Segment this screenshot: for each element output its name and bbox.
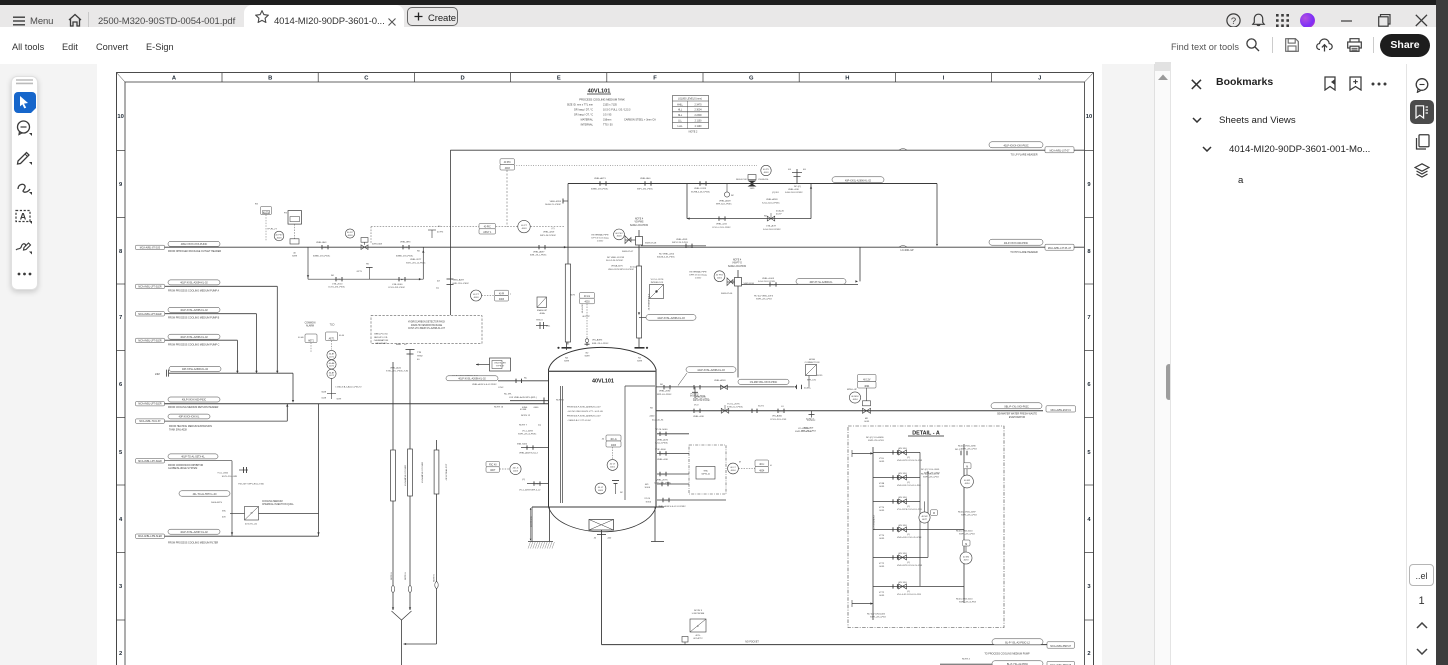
svg-text:VEBL-4-96: VEBL-4-96 — [693, 416, 704, 418]
svg-text:MCA-AVBL-LPT-SLER: MCA-AVBL-LPT-SLER — [138, 403, 162, 406]
acrobat tab bar — [0, 5, 1448, 27]
svg-text:10: 10 — [117, 114, 123, 120]
detail A bypass motor valve — [919, 512, 930, 523]
svg-text:40-40-4L-94: 40-40-4L-94 — [652, 420, 664, 422]
inner border frame — [125, 82, 1085, 665]
svg-text:4001: 4001 — [610, 466, 616, 468]
svg-text:BEDUP 0 74L: BEDUP 0 74L — [374, 337, 388, 339]
thermo column 2 — [408, 449, 413, 496]
detail A branch row 5 — [873, 556, 928, 558]
svg-text:VEBL-A-95 S-S-L2-P63C: VEBL-A-95 S-S-L2-P63C — [472, 383, 497, 386]
svg-text:VEBL-20TS: VEBL-20TS — [656, 479, 668, 481]
svg-text:VCO-L-20TS: VCO-L-20TS — [651, 279, 664, 281]
svg-text:SSPL-2X-L-P63: SSPL-2X-L-P63 — [693, 399, 709, 401]
svg-text:NO: NO — [650, 408, 654, 410]
svg-text:-5099: -5099 — [879, 566, 885, 568]
relief valve B outlet valve — [737, 270, 739, 378]
recirculation loop — [686, 184, 688, 219]
svg-text:40 (C): 40 (C) — [630, 266, 636, 268]
svg-text:EXTERNAL PIPE: EXTERNAL PIPE — [689, 270, 707, 273]
close panel icon — [1191, 79, 1202, 90]
svg-text:2 2300: 2 2300 — [694, 115, 702, 117]
pipeline inlet 5 pill — [169, 366, 221, 371]
svg-text:(C): (C) — [551, 228, 554, 230]
svg-text:GPTL: GPTL — [357, 271, 363, 273]
svg-text:(C): (C) — [907, 562, 910, 564]
svg-text:COST-LTC-59EST-PL-A2696-KL-KIT: COST-LTC-59EST-PL-A2696-KL-KIT — [408, 327, 446, 330]
svg-text:NOTE 16: NOTE 16 — [494, 406, 504, 408]
svg-text:VY-L-20TS COO-L2-L-P63: VY-L-20TS COO-L2-L-P63 — [897, 509, 922, 511]
svg-text:VEBL-A209: VEBL-A209 — [719, 199, 731, 202]
svg-text:NO (C): NO (C) — [794, 186, 801, 188]
svg-text:40P-XXSL-A2696-KL-02: 40P-XXSL-A2696-KL-02 — [182, 368, 209, 371]
svg-text:609L-2X-L-P63C: 609L-2X-L-P63C — [530, 255, 547, 257]
pipeline inlet 1 tag — [136, 245, 165, 249]
floating quick tool palette — [11, 76, 38, 290]
detail A right riser — [963, 444, 965, 603]
svg-text:COOL-2XL-P63C: COOL-2XL-P63C — [388, 287, 405, 289]
svg-text:NO(C) V94-1010: NO(C) V94-1010 — [956, 530, 973, 532]
pipe header line F-G section — [568, 183, 937, 185]
svg-text:PROCESS COOLING MEDIUM TANK: PROCESS COOLING MEDIUM TANK — [579, 98, 625, 102]
header ticks at F9 — [699, 181, 701, 185]
svg-text:-5099: -5099 — [879, 486, 885, 488]
svg-text:S-S-L2-DL2-P63C: S-S-L2-DL2-P63C — [762, 202, 780, 204]
svg-text:NOTE 8: NOTE 8 — [391, 572, 393, 580]
svg-text:-5099: -5099 — [879, 538, 885, 540]
notifications bell — [1251, 13, 1266, 28]
svg-text:1.5GO: 1.5GO — [695, 278, 702, 280]
svg-text:609BL-2XL-P63C: 609BL-2XL-P63C — [591, 189, 609, 191]
svg-text:40LP-XXXX-600-P63C: 40LP-XXXX-600-P63C — [1004, 242, 1029, 245]
svg-text:VEx-A0H3: VEx-A0H3 — [592, 339, 603, 342]
svg-text:NC 4PL: NC 4PL — [504, 394, 512, 396]
svg-text:TTS / 50: TTS / 50 — [603, 124, 613, 127]
svg-text:TEN-O: TEN-O — [536, 320, 543, 322]
bookmarks heading — [1216, 76, 1273, 88]
svg-text:NO(C) V94-1010: NO(C) V94-1010 — [956, 598, 973, 600]
svg-text:40-SAMPLE-COOLER: 40-SAMPLE-COOLER — [404, 465, 407, 486]
user avatar — [1300, 13, 1315, 28]
svg-text:40 M2: 40 M2 — [921, 516, 928, 518]
svg-text:40 M5V: 40 M5V — [851, 396, 859, 398]
svg-text:(C): (C) — [665, 387, 668, 389]
drain pipe riser — [165, 535, 319, 537]
expansion tank tag — [136, 419, 165, 423]
svg-text:5099: 5099 — [637, 361, 643, 363]
svg-text:40LP-XXXX-600-P63C: 40LP-XXXX-600-P63C — [182, 399, 207, 402]
detail A bottom inlet arrow — [852, 603, 873, 605]
svg-text:VEBL-A209: VEBL-A209 — [766, 198, 778, 201]
pipeline inlet 1 pill — [168, 241, 220, 246]
sump level indicator box — [738, 468, 755, 470]
PSV bubble at header — [761, 165, 771, 175]
svg-text:LO-4001-GP: LO-4001-GP — [900, 250, 913, 252]
pressure transmitter pair D7 — [471, 290, 482, 301]
detail A right riser flange — [960, 451, 962, 455]
svg-text:S-S-L2-DL2-P63C: S-S-L2-DL2-P63C — [763, 229, 781, 231]
svg-text:B: B — [268, 76, 272, 82]
expansion pill — [168, 414, 210, 419]
svg-text:TRA: TRA — [703, 469, 708, 472]
svg-text:NC: NC — [731, 195, 735, 197]
skirt base hatch — [528, 542, 554, 549]
relief A tail pipe — [639, 245, 706, 247]
svg-text:MPB-L-UP: MPB-L-UP — [847, 389, 858, 391]
svg-text:PS NO-2: PS NO-2 — [807, 420, 816, 422]
svg-text:4071: 4071 — [329, 366, 335, 368]
svg-text:5609-67-08: 5609-67-08 — [645, 243, 657, 245]
svg-text:2 3004: 2 3004 — [694, 110, 702, 112]
svg-text:HOSE: HOSE — [809, 359, 816, 361]
svg-text:Y92-20TT WPL-EX-L2-W0: Y92-20TT WPL-EX-L2-W0 — [238, 484, 265, 486]
svg-text:DPH @ 10.5 barg: DPH @ 10.5 barg — [689, 274, 707, 277]
svg-text:40 PT: 40 PT — [473, 294, 479, 296]
pipe from inlet 2 — [165, 285, 277, 287]
svg-text:(C): (C) — [661, 453, 664, 455]
svg-text:40P-XXSL-A2696-KL-02: 40P-XXSL-A2696-KL-02 — [845, 179, 872, 182]
gas detector bubbles — [327, 350, 336, 359]
svg-text:S-S-L2-DL2-P63L: S-S-L2-DL2-P63L — [758, 281, 776, 283]
svg-text:DETAIL - A: DETAIL - A — [912, 430, 940, 436]
svg-text:N-STD 900: N-STD 900 — [531, 516, 533, 527]
svg-text:(C): (C) — [907, 457, 910, 459]
pump suction pill — [992, 639, 1043, 645]
svg-text:FROM PROCESS COOLING MEDIUM PU: FROM PROCESS COOLING MEDIUM PUMP A — [168, 289, 219, 292]
svg-text:40V 55U: 40V 55U — [898, 582, 907, 584]
svg-text:4003: 4003 — [513, 470, 519, 472]
svg-text:4003: 4003 — [617, 236, 623, 238]
svg-text:YO-L-2055: YO-L-2055 — [217, 473, 228, 475]
relief valve B angle body — [727, 278, 733, 286]
svg-text:CHEMICAL INJECTION QUILL: CHEMICAL INJECTION QUILL — [262, 503, 295, 506]
svg-text:WPL-DL-P63C: WPL-DL-P63C — [657, 394, 672, 396]
svg-text:J: J — [1038, 76, 1041, 82]
main feed pipe line — [165, 403, 549, 405]
vessel skirt — [531, 507, 533, 542]
equipment description text block — [567, 98, 656, 127]
detail A lower motor valve — [960, 552, 972, 564]
pipeline inlet 3 pill — [168, 307, 220, 312]
svg-text:(C): (C) — [535, 484, 538, 486]
svg-text:YP-26 -5000: YP-26 -5000 — [655, 429, 668, 431]
svg-text:MOV: MOV — [570, 294, 575, 296]
svg-text:GAS INLET: GAS INLET — [375, 342, 387, 345]
svg-text:10: 10 — [1086, 114, 1092, 120]
temperature element fittings — [536, 325, 548, 327]
divider — [1373, 37, 1374, 53]
svg-text:10.5 G FULL / 20 / 123.3: 10.5 G FULL / 20 / 123.3 — [603, 109, 631, 112]
svg-text:INTERNAL: INTERNAL — [581, 124, 594, 127]
svg-text:40 M2: 40 M2 — [963, 557, 970, 559]
svg-text:VEBL-A-00: VEBL-A-00 — [390, 366, 402, 369]
panel options dots — [1371, 82, 1387, 86]
svg-text:40LP-XXSL-A2694-KL-02: 40LP-XXSL-A2694-KL-02 — [180, 282, 208, 285]
svg-text:WPL-LX0: WPL-LX0 — [807, 380, 817, 382]
svg-text:4094: 4094 — [864, 386, 870, 388]
svg-text:UW-TN-LER: UW-TN-LER — [494, 363, 506, 365]
svg-text:E: E — [557, 76, 561, 82]
svg-text:40V 55U: 40V 55U — [898, 448, 907, 450]
svg-text:-5099: -5099 — [879, 510, 885, 512]
svg-text:MCA-AVBL-LPT-SLER: MCA-AVBL-LPT-SLER — [138, 313, 162, 316]
sampler unit box — [490, 358, 511, 371]
svg-text:TP-RL-2T: TP-RL-2T — [267, 228, 277, 230]
vessel level transmitter — [612, 447, 614, 460]
chemical dosing pill — [168, 454, 218, 459]
svg-text:VEx-A066: VEx-A066 — [772, 415, 783, 418]
svg-text:40 H0: 40 H0 — [298, 337, 304, 339]
svg-text:SSPL-2X-L-P63: SSPL-2X-L-P63 — [959, 534, 975, 536]
svg-text:40-97: 40-97 — [776, 213, 782, 215]
svg-text:GLOBE/SLUDGE SYSTEM: GLOBE/SLUDGE SYSTEM — [168, 467, 197, 470]
pipe from inlet 4 — [165, 339, 237, 341]
bookmark add icon — [1349, 76, 1362, 91]
svg-text:TO HP FLARE HEADER: TO HP FLARE HEADER — [1010, 251, 1038, 254]
svg-text:COOL-2X-L-P63: COOL-2X-L-P63 — [770, 419, 787, 421]
sample line sight glasses — [391, 586, 394, 593]
svg-text:M: M — [966, 467, 968, 469]
svg-text:4071: 4071 — [329, 356, 335, 358]
header cross fitting — [796, 169, 798, 184]
controller box LC PIC — [500, 159, 515, 165]
svg-text:4094: 4094 — [965, 483, 971, 485]
svg-text:INTERLOCK: INTERLOCK — [651, 282, 664, 284]
svg-text:44LP-XXSL-A2696-KL-03: 44LP-XXSL-A2696-KL-03 — [697, 369, 725, 372]
comments rail icon — [1414, 77, 1431, 93]
svg-text:2 1100: 2 1100 — [695, 126, 703, 128]
svg-text:40-A-45: 40-A-45 — [776, 209, 785, 212]
liquid levels table — [673, 96, 709, 129]
svg-text:VEBL-4-94: VEBL-4-94 — [716, 224, 727, 226]
svg-text:4005: 4005 — [598, 490, 604, 492]
svg-text:(C): (C) — [522, 479, 525, 481]
svg-text:VEBL-A097: VEBL-A097 — [453, 279, 465, 282]
svg-text:FROM PROCESS COOLING MEDIUM FI: FROM PROCESS COOLING MEDIUM FILTER — [168, 541, 218, 544]
drain stub N10 — [657, 473, 689, 475]
svg-text:40 PCP: 40 PCP — [582, 316, 590, 318]
svg-text:V-B-PT-O: V-B-PT-O — [732, 263, 742, 265]
level switch tag box — [486, 461, 500, 466]
search icon — [1246, 38, 1260, 52]
svg-text:NO: NO — [331, 275, 335, 277]
svg-text:4003: 4003 — [611, 445, 617, 447]
draw tool — [16, 179, 33, 196]
svg-text:VYT2: VYT2 — [879, 563, 885, 565]
svg-text:MO2 VEx-A055: MO2 VEx-A055 — [690, 394, 706, 397]
pipeline label on header — [832, 177, 884, 183]
svg-text:2 1100: 2 1100 — [695, 121, 703, 123]
svg-text:40V: 40V — [222, 517, 226, 519]
svg-text:SSPL-2X-L-P63: SSPL-2X-L-P63 — [756, 299, 772, 301]
menu label — [30, 16, 53, 27]
PDF engineering drawing page — [97, 64, 1154, 665]
svg-text:40LP-XXSL-A2695-KL-02: 40LP-XXSL-A2695-KL-02 — [180, 309, 208, 312]
svg-text:VEBL-2077: VEBL-2077 — [410, 259, 422, 261]
svg-text:40LP-XXXX-XXX-P63C: 40LP-XXXX-XXX-P63C — [1003, 145, 1028, 148]
svg-text:7: 7 — [119, 315, 122, 321]
detail A branch row 4 — [873, 528, 964, 530]
svg-text:-BYP: -BYP — [922, 519, 928, 521]
svg-text:(C): (C) — [404, 247, 407, 249]
svg-text:SIZE ID. mm x TTL mm: SIZE ID. mm x TTL mm — [567, 104, 593, 107]
detail A boundary — [848, 426, 1004, 628]
svg-text:CONNECTION: CONNECTION — [805, 362, 820, 364]
relief line standpipe — [637, 266, 642, 338]
svg-text:(C): (C) — [771, 284, 774, 286]
tree chevron 1 — [1192, 117, 1202, 123]
svg-text:NOTE 4: NOTE 4 — [962, 658, 971, 660]
svg-text:40 PT: 40 PT — [521, 225, 528, 227]
temperature safety valve box B8 — [261, 207, 272, 215]
svg-text:SSPL-2X-L-P63: SSPL-2X-L-P63 — [923, 477, 939, 479]
svg-text:?: ? — [1231, 16, 1236, 27]
vessel bottom seam — [532, 506, 664, 508]
svg-text:40 LG: 40 LG — [610, 439, 616, 441]
svg-text:NC VEBL-42-P63: NC VEBL-42-P63 — [607, 257, 625, 259]
main feed pill — [168, 397, 220, 402]
level bridle top bracket — [567, 184, 569, 265]
svg-text:V94L-4-99 COO-L2-L-P63: V94L-4-99 COO-L2-L-P63 — [897, 537, 922, 539]
svg-text:5099: 5099 — [292, 255, 298, 257]
instrument signal dotted line — [514, 165, 757, 167]
relief valve A bubble — [614, 229, 625, 240]
svg-text:600-M-2-DL-P63C: 600-M-2-DL-P63C — [657, 257, 675, 259]
svg-text:FROM 40LP-XXSL-A2696-KL-02V: FROM 40LP-XXSL-A2696-KL-02V — [567, 405, 601, 408]
svg-text:24M: 24M — [155, 373, 160, 376]
drain collection tag — [136, 534, 165, 538]
svg-text:40 PIC: 40 PIC — [484, 227, 491, 229]
svg-text:4001: 4001 — [717, 278, 723, 280]
svg-text:FROM COOLING MEDIUM RETURN HEA: FROM COOLING MEDIUM RETURN HEADER — [168, 406, 219, 409]
svg-text:HO: HO — [366, 263, 370, 265]
corner chamfer right — [1085, 73, 1094, 82]
svg-text:40 AT: 40 AT — [329, 353, 335, 356]
svg-text:40 M2: 40 M2 — [964, 480, 971, 482]
svg-text:4004: 4004 — [759, 471, 765, 473]
e-sign — [146, 42, 174, 52]
svg-text:DPT @ 10.5 barg: DPT @ 10.5 barg — [591, 237, 609, 240]
svg-text:SSPL-2X-L-P63: SSPL-2X-L-P63 — [870, 617, 886, 619]
svg-text:ALARM: ALARM — [306, 325, 314, 328]
svg-text:YCO-L-20TS: YCO-L-20TS — [727, 403, 740, 405]
dome nozzle N2 — [586, 338, 588, 346]
drain stub N11 — [657, 483, 689, 485]
svg-text:NC: NC — [620, 492, 624, 494]
svg-text:VEBL-4209: VEBL-4209 — [543, 232, 555, 234]
page down chevron — [1416, 648, 1428, 655]
svg-text:VO-L-2009: VO-L-2009 — [798, 428, 809, 430]
relief valve A outlet valve — [638, 230, 640, 347]
page up chevron — [1416, 622, 1428, 629]
relief valve A angle body — [625, 236, 631, 244]
svg-text:V94L-20TS COO-L2-L-P63: V94L-20TS COO-L2-L-P63 — [897, 460, 923, 462]
svg-text:TEN2: TEN2 — [417, 356, 423, 358]
svg-text:SO99: SO99 — [817, 375, 823, 377]
svg-text:VEBL-A209: VEBL-A209 — [714, 379, 726, 382]
svg-text:ASSY 1: ASSY 1 — [483, 231, 492, 234]
svg-text:VY4B: VY4B — [879, 483, 885, 485]
svg-text:HHLL: HHLL — [677, 104, 684, 106]
svg-text:MO: MO — [865, 418, 869, 420]
svg-text:40 PSV: 40 PSV — [275, 235, 283, 237]
hydrocarbon detector pack panel — [371, 316, 482, 344]
grid row tick marks — [117, 151, 1094, 621]
svg-text:EVAPORATOR: EVAPORATOR — [1009, 416, 1025, 419]
svg-text:(C): (C) — [687, 246, 690, 248]
svg-text:FROM NITROGEN PACKAGE OUTLET H: FROM NITROGEN PACKAGE OUTLET HEADER — [168, 250, 221, 253]
svg-text:- VEBL2-B-C V7T-L2-SC: - VEBL2-B-C V7T-L2-SC — [567, 420, 591, 422]
print icon — [1347, 38, 1362, 52]
vessel stilling well — [560, 386, 562, 503]
svg-text:MCA-AVBL-LPT-SLER: MCA-AVBL-LPT-SLER — [138, 339, 162, 342]
svg-text:40 PSV: 40 PSV — [716, 275, 724, 277]
svg-text:MCA-AVBL-LPT-SLER: MCA-AVBL-LPT-SLER — [138, 285, 162, 288]
svg-text:G: G — [749, 76, 754, 82]
svg-text:NO: NO — [660, 384, 664, 386]
svg-text:SSTL-2XL-L2-P63C: SSTL-2XL-L2-P63C — [406, 262, 426, 264]
svg-text:-5000: -5000 — [533, 407, 539, 409]
pipeline inlet 4 pill — [168, 334, 220, 339]
svg-text:40 12V: 40 12V — [863, 379, 871, 381]
alarm annunciator boxes — [305, 334, 317, 343]
self regulating valve on line — [294, 224, 296, 239]
PSV B riser to flare line — [859, 247, 861, 281]
HP flare pipeline label — [989, 239, 1043, 245]
pipeline inlet 2 pill — [168, 280, 220, 285]
cooling medium return pill at vessel — [446, 376, 498, 381]
tab close icon — [388, 18, 396, 26]
apps grid icon — [1276, 14, 1289, 27]
find text — [1171, 42, 1239, 52]
svg-text:VYR -5000: VYR -5000 — [655, 449, 666, 451]
svg-text:56PL2-DL2-P63: 56PL2-DL2-P63 — [672, 242, 688, 244]
svg-text:40-SV-SEAL-POT: 40-SV-SEAL-POT — [445, 463, 448, 480]
detail A branch row 3 — [873, 500, 920, 502]
thermo column 3 — [436, 440, 438, 644]
detail A branch row 2 — [873, 476, 920, 478]
svg-text:-5099: -5099 — [879, 461, 885, 463]
more tools dots — [17, 272, 33, 276]
svg-text:NO (C) VO-L-2005: NO (C) VO-L-2005 — [921, 469, 940, 471]
svg-text:(C): (C) — [323, 247, 326, 249]
svg-text:STXL-2X-L-P63C-T-92: STXL-2X-L-P63C-T-92 — [386, 371, 409, 373]
svg-text:3.5 / 95: 3.5 / 95 — [603, 114, 612, 117]
svg-text:BL-P-YSL-A2-P63C-L2: BL-P-YSL-A2-P63C-L2 — [1005, 642, 1030, 645]
bookmark child item — [1238, 175, 1243, 186]
dark desktop edge — [1436, 0, 1448, 665]
svg-text:NOTE 12: NOTE 12 — [521, 415, 531, 417]
help icon — [1226, 13, 1241, 28]
vertical scrollbar — [1154, 64, 1170, 665]
comment tool — [16, 120, 33, 137]
highlight pen tool — [16, 149, 33, 166]
bookmarks panel — [1170, 64, 1406, 665]
vessel 40VL101 shell — [549, 369, 657, 507]
pipe line to LP flare header — [450, 149, 1084, 151]
svg-text:M: M — [933, 513, 935, 515]
drain stub N9 — [657, 452, 689, 454]
svg-text:MATERIAL: MATERIAL — [581, 119, 594, 122]
svg-text:VY5L: VY5L — [879, 458, 885, 460]
svg-text:40 LS: 40 LS — [513, 468, 519, 470]
svg-text:SSPL-2X-L-P63: SSPL-2X-L-P63 — [868, 440, 884, 442]
svg-text:SSPL-2X-L-P63: SSPL-2X-L-P63 — [961, 449, 977, 451]
svg-text:(C): (C) — [695, 411, 698, 413]
loop bottom ticks — [718, 216, 720, 220]
relief B tail pipe — [742, 283, 859, 285]
flow arrow into bridle — [564, 246, 567, 248]
